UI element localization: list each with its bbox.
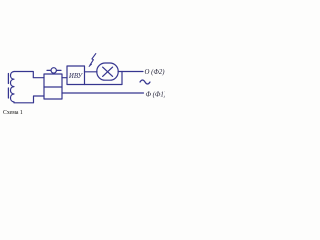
- inductor L1 (coil winding): [10, 72, 14, 103]
- wire lamp to output O: [118, 71, 143, 73]
- piezo circle: [51, 68, 56, 73]
- wire coil bottom to lower box: [14, 96, 44, 103]
- lamp X stroke 1: [103, 67, 113, 76]
- lamp HL1 (stadium body): [97, 63, 118, 80]
- sensor block divider (lower box): [44, 86, 62, 88]
- wire IVU bottom loop to node: [85, 72, 123, 85]
- svg-text:Ф (Ф1): Ф (Ф1): [146, 91, 166, 98]
- wire coil top to upper box: [14, 72, 44, 78]
- wire IVU to lamp: [85, 71, 98, 73]
- lamp X stroke 2: [103, 67, 113, 76]
- piezo line over circle: [47, 69, 61, 71]
- magnetic core (dashed): [7, 74, 9, 99]
- svg-text:Схема 1: Схема 1: [3, 110, 23, 116]
- svg-text:ИВУ: ИВУ: [68, 73, 84, 80]
- sensor block upper box: [44, 74, 62, 99]
- sine symbol: [140, 80, 150, 84]
- svg-text:О (Ф2): О (Ф2): [145, 69, 166, 76]
- lightning arrow (light input): [90, 54, 96, 65]
- wire lower box to output F: [62, 92, 144, 94]
- block U1 (IVU box): [67, 66, 85, 85]
- wire upper box to IVU: [62, 77, 67, 79]
